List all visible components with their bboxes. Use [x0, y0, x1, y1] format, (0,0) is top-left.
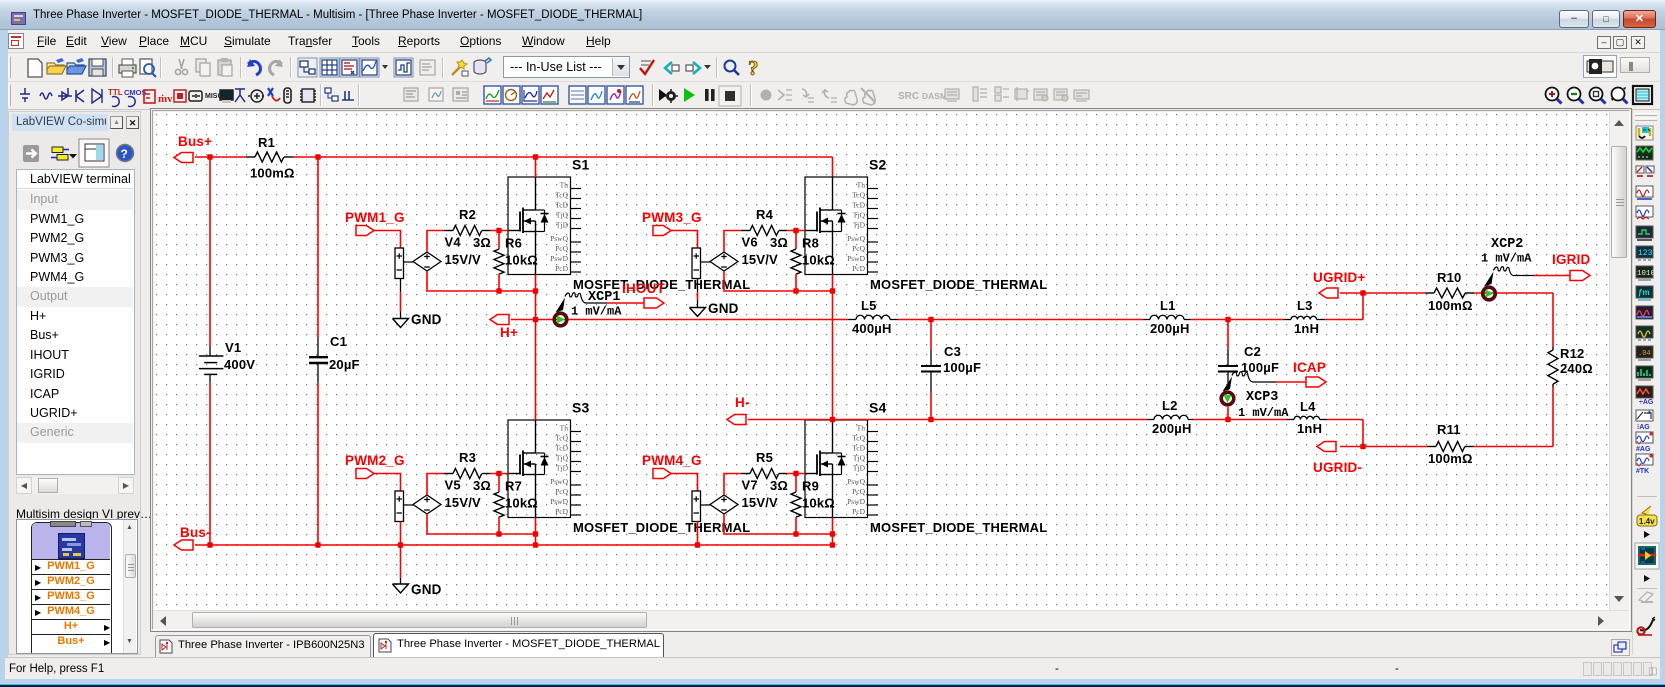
junction return at source — [830, 531, 835, 536]
svg-text:10kΩ: 10kΩ — [802, 496, 835, 511]
svg-text:R1: R1 — [258, 135, 275, 150]
1.4v probe icon — [1637, 506, 1657, 526]
svg-text:240Ω: 240Ω — [1560, 361, 1593, 376]
svg-text:S1: S1 — [572, 157, 590, 173]
junction — [533, 317, 538, 322]
probe tool — [1637, 617, 1655, 635]
sep — [290, 57, 291, 78]
svg-text:L1: L1 — [1160, 298, 1176, 313]
svg-text:SRC: SRC — [898, 91, 919, 102]
print — [119, 59, 136, 77]
junction — [695, 542, 700, 547]
dependent source V4 (VCVS 15V/V) — [395, 235, 481, 279]
wire PWM to VCVS input — [374, 474, 401, 492]
subcircuit S1 box — [508, 157, 750, 293]
svg-text:200µH: 200µH — [1150, 321, 1190, 336]
junction gate node — [496, 228, 501, 233]
right simulation switch buttons — [1583, 55, 1617, 78]
svg-text:Th: Th — [560, 423, 569, 432]
svg-text:100µF: 100µF — [943, 360, 981, 375]
back — [665, 62, 679, 74]
sep — [240, 57, 241, 78]
resistor R3 3 ohm gate resistor — [444, 450, 491, 493]
svg-text:1nH: 1nH — [1294, 321, 1319, 336]
wire S1 source to H+ node — [535, 275, 537, 320]
left dock panel: LabVIEW Co-simulation — [8, 111, 141, 655]
svg-text:TjQ: TjQ — [853, 210, 866, 219]
wire source return — [796, 290, 833, 292]
junction — [315, 154, 320, 159]
wire VCVS return — [427, 271, 499, 291]
svg-text:TjD: TjD — [556, 220, 569, 229]
wire Bus+ rail — [195, 156, 246, 158]
wire gate node — [490, 473, 508, 475]
wire PWM to VCVS input — [671, 231, 698, 249]
ground under VCVS — [690, 279, 739, 317]
svg-text:⁝AG: ⁝AG — [1637, 424, 1650, 431]
graapher btn + dd — [360, 58, 379, 77]
svg-text:Bus-: Bus- — [180, 525, 211, 540]
resistor R9 10k gate pulldown — [791, 474, 835, 535]
svg-text:1 mV/mA: 1 mV/mA — [571, 305, 622, 319]
svg-text:ṁv: ṁv — [158, 93, 173, 105]
svg-text:L3: L3 — [1297, 298, 1313, 313]
svg-text:1nH: 1nH — [1297, 421, 1322, 436]
svg-text:TcD: TcD — [555, 443, 568, 452]
arrows — [35, 563, 41, 572]
svg-text:L2: L2 — [1162, 398, 1178, 413]
capacitor C3 100uF — [921, 320, 981, 420]
svg-text:MOSFET_DIODE_THERMAL: MOSFET_DIODE_THERMAL — [870, 520, 1047, 535]
svg-text:10kΩ: 10kΩ — [505, 253, 538, 268]
svg-text:15V/V: 15V/V — [445, 495, 482, 510]
wire S2 source to H- node — [832, 275, 834, 420]
save — [89, 59, 106, 76]
svg-text:GND: GND — [411, 312, 442, 327]
svg-text:PcQ: PcQ — [555, 487, 569, 496]
svg-text:PWM4_G: PWM4_G — [642, 453, 702, 468]
node UGRID+ connector — [1313, 270, 1366, 298]
sep — [442, 57, 443, 78]
svg-text:H+: H+ — [500, 325, 518, 340]
svg-text:TjQ: TjQ — [556, 453, 569, 462]
wire S3 source to Bus- — [535, 518, 537, 546]
svg-text:R9: R9 — [802, 479, 819, 494]
svg-text:R11: R11 — [1437, 422, 1461, 437]
wire VCVS input to Bus- rail (leg4) — [697, 522, 699, 546]
junction — [1225, 417, 1230, 422]
node PWM4_G input connector — [642, 453, 702, 479]
wire H+ rail — [511, 319, 848, 321]
svg-text:GND: GND — [708, 301, 739, 316]
junction — [830, 417, 835, 422]
analyses btn — [394, 58, 413, 77]
VI icon — [58, 533, 85, 559]
resistor R12 240 ohm — [1548, 346, 1593, 447]
svg-text:PswD: PswD — [550, 254, 569, 263]
svg-text:1010: 1010 — [1637, 270, 1656, 278]
svg-text:TcQ: TcQ — [555, 190, 568, 199]
terminal list — [16, 169, 135, 475]
junction — [830, 542, 835, 547]
spreadsheet btn — [320, 58, 339, 77]
pin stubs and labels of S3 — [550, 423, 581, 516]
wire VCVS input to Bus- rail (leg3) — [400, 522, 402, 546]
node UGRID- connector — [1313, 442, 1362, 476]
wire S4 drain from H- — [832, 419, 834, 422]
svg-text:R10: R10 — [1437, 270, 1461, 285]
junction return at source — [533, 288, 538, 293]
greyed debug icons — [761, 88, 876, 105]
svg-text:PcD: PcD — [555, 264, 569, 273]
svg-text:R2: R2 — [459, 207, 476, 222]
svg-text:TcQ: TcQ — [852, 433, 865, 442]
svg-text:R7: R7 — [505, 479, 522, 494]
wire source return — [499, 290, 536, 292]
current probe XCP3 — [1221, 372, 1306, 420]
preview box — [16, 519, 138, 654]
svg-text:PswD: PswD — [847, 254, 866, 263]
svg-text:C1: C1 — [330, 334, 347, 349]
vertical scrollbar — [1609, 112, 1629, 610]
svg-text:V1: V1 — [225, 340, 241, 355]
wire VCVS output to gate resistor — [427, 474, 444, 496]
wire S4 source to Bus- — [832, 518, 834, 546]
resistor R1 100m ohm — [246, 135, 295, 181]
instrument icons — [1636, 126, 1656, 475]
svg-text:C2: C2 — [1244, 344, 1261, 359]
svg-text:Th: Th — [857, 180, 866, 189]
wire H+ node to S3 drain — [535, 320, 537, 421]
node Bus- connector — [174, 525, 211, 550]
svg-text:15V/V: 15V/V — [742, 495, 779, 510]
horizontal scrollbar of list — [16, 477, 135, 494]
panel toolbar — [9, 136, 142, 170]
svg-text:PswQ: PswQ — [550, 234, 569, 243]
svg-text:IHOUT: IHOUT — [622, 281, 666, 296]
svg-text:R6: R6 — [505, 236, 522, 251]
svg-text:PcQ: PcQ — [852, 487, 866, 496]
inductor L1 200uH — [1143, 298, 1191, 336]
stamp greyed — [1639, 592, 1653, 602]
svg-text:R3: R3 — [459, 450, 476, 465]
wire gate node — [787, 473, 805, 475]
node PWM2_G input connector — [345, 453, 405, 479]
node IHOUT connector — [622, 281, 666, 308]
svg-text:100mΩ: 100mΩ — [1428, 298, 1473, 313]
dependent source V7 (VCVS 15V/V) — [692, 478, 778, 522]
inductor L4 1nH — [1287, 399, 1327, 436]
pin stubs and labels of S2 — [847, 180, 878, 272]
svg-text:ICAP: ICAP — [1293, 360, 1326, 375]
undo — [247, 59, 261, 75]
new — [28, 59, 42, 77]
preview scrollbar — [123, 520, 136, 655]
graph icons group 2 — [569, 86, 586, 104]
svg-text:PWM3_G: PWM3_G — [642, 210, 702, 225]
ground under VCVS — [393, 279, 442, 328]
junction return at pulldown — [793, 288, 798, 293]
resistor R10 100m ohm — [1425, 270, 1474, 313]
node Bus+ connector — [174, 134, 212, 163]
cut copy paste greyed — [175, 59, 187, 75]
wire VCVS output to gate resistor — [724, 474, 741, 496]
svg-text:#TK: #TK — [1636, 468, 1649, 475]
svg-text:ƒm: ƒm — [1638, 288, 1650, 297]
node ICAP connector — [1293, 360, 1326, 387]
junction — [207, 542, 212, 547]
svg-text:V7: V7 — [742, 478, 758, 493]
in-use list combo — [503, 56, 630, 78]
svg-text:PWM2_G: PWM2_G — [345, 453, 405, 468]
fwd — [686, 62, 700, 74]
svg-text:PcQ: PcQ — [852, 244, 866, 253]
svg-text:3Ω: 3Ω — [770, 478, 788, 493]
mcu — [300, 89, 316, 102]
redo greyed — [270, 59, 284, 75]
node H- connector — [727, 395, 750, 425]
svg-text:MOSFET_DIODE_THERMAL: MOSFET_DIODE_THERMAL — [870, 277, 1047, 292]
wire H- rail — [748, 419, 1147, 421]
wire UGRID+ line — [1340, 292, 1425, 294]
transistor (power MOSFET w/ body diode) inside S1 — [508, 177, 549, 275]
svg-text:1 mV/mA: 1 mV/mA — [1481, 252, 1532, 266]
resistor R7 10k gate pulldown — [494, 474, 538, 535]
labview icon pressed — [1635, 543, 1659, 569]
svg-text:PWM1_G: PWM1_G — [345, 210, 405, 225]
wizard — [452, 60, 468, 76]
node PWM1_G input connector — [345, 210, 405, 236]
postprocessor — [420, 60, 435, 75]
junction — [315, 542, 320, 547]
subcircuit S3 box — [508, 400, 750, 536]
junction gate node — [793, 471, 798, 476]
svg-text:V4: V4 — [445, 235, 462, 250]
svg-text:20µF: 20µF — [329, 357, 360, 372]
inductor L5 400uH — [848, 298, 898, 336]
wire Bus- rail — [195, 544, 833, 546]
preview — [140, 59, 156, 77]
svg-text:100mΩ: 100mΩ — [250, 166, 295, 181]
svg-text:15V/V: 15V/V — [742, 252, 779, 267]
wire source return — [499, 533, 536, 535]
schematic child window — [150, 108, 1632, 632]
svg-text:V6: V6 — [742, 235, 758, 250]
junction — [1360, 290, 1365, 295]
wire VCVS return — [724, 271, 796, 291]
junction — [398, 542, 403, 547]
inductor L3 1nH — [1284, 298, 1325, 336]
svg-text:Th: Th — [560, 180, 569, 189]
inductor L2 200uH — [1147, 398, 1193, 436]
resistor R8 10k gate pulldown — [791, 231, 835, 292]
junction — [533, 154, 538, 159]
node IGRID connector — [1552, 252, 1591, 281]
junction — [928, 317, 933, 322]
VI block — [31, 522, 112, 662]
svg-text:L4: L4 — [1300, 399, 1316, 414]
ground at Bus- rail — [393, 545, 442, 597]
svg-text:TjD: TjD — [853, 463, 866, 472]
component group icons — [20, 88, 30, 102]
wire S1 drain from Bus+ — [535, 157, 537, 177]
wire VCVS output to gate resistor — [427, 231, 444, 253]
dependent source V5 (VCVS 15V/V) — [395, 478, 481, 522]
svg-text:UGRID-: UGRID- — [1313, 460, 1362, 475]
svg-text:?: ? — [121, 147, 128, 161]
svg-text:L5: L5 — [861, 298, 877, 313]
svg-text:CMOS: CMOS — [124, 88, 147, 97]
junction — [533, 542, 538, 547]
SPICE netlist btn — [340, 58, 359, 77]
find — [725, 61, 740, 76]
svg-text:IGRID: IGRID — [1552, 252, 1591, 267]
svg-text:PcQ: PcQ — [555, 244, 569, 253]
svg-text:TjQ: TjQ — [853, 453, 866, 462]
svg-text:TcQ: TcQ — [852, 190, 865, 199]
junction — [1360, 444, 1365, 449]
pin stubs and labels of S4 — [847, 423, 878, 516]
svg-text:PswQ: PswQ — [847, 477, 866, 486]
svg-text:?: ? — [748, 56, 759, 80]
svg-text:Th: Th — [857, 423, 866, 432]
svg-text:10kΩ: 10kΩ — [802, 253, 835, 268]
resistor R2 3 ohm gate resistor — [444, 207, 491, 250]
resistor R4 3 ohm gate resistor — [741, 207, 788, 250]
open — [47, 58, 66, 74]
wire source return — [796, 533, 833, 535]
svg-text:C3: C3 — [944, 344, 961, 359]
current probe XCP2 — [1481, 237, 1570, 300]
svg-text:TTL: TTL — [108, 88, 123, 97]
svg-text:Bus+: Bus+ — [178, 134, 212, 149]
junction return at source — [830, 288, 835, 293]
run controls — [659, 89, 678, 103]
svg-text:PcD: PcD — [852, 264, 866, 273]
svg-text:UGRID+: UGRID+ — [1313, 270, 1366, 285]
pin stubs and labels of S1 — [550, 180, 581, 272]
junction return at pulldown — [793, 531, 798, 536]
svg-text:GND: GND — [411, 582, 442, 597]
svg-text:TcD: TcD — [555, 200, 568, 209]
svg-text:1.4v: 1.4v — [1639, 517, 1655, 526]
svg-text:.04: .04 — [1638, 350, 1651, 358]
sep — [160, 57, 161, 78]
sheet tab bar — [150, 632, 1632, 657]
svg-text:10kΩ: 10kΩ — [505, 496, 538, 511]
sep — [112, 57, 113, 78]
svg-text:H-: H- — [735, 395, 750, 410]
junction gate node — [496, 471, 501, 476]
dependent source V6 (VCVS 15V/V) — [692, 235, 778, 279]
svg-text:TjD: TjD — [556, 463, 569, 472]
svg-text:3Ω: 3Ω — [770, 235, 788, 250]
design toolbox btn — [298, 58, 317, 77]
svg-text:TjQ: TjQ — [556, 210, 569, 219]
ERC — [640, 60, 654, 74]
svg-text:TcD: TcD — [852, 200, 865, 209]
open sample — [67, 58, 86, 74]
graph icons group 1 — [484, 86, 501, 104]
junction — [207, 154, 212, 159]
transistor (power MOSFET w/ body diode) inside S2 — [805, 177, 846, 275]
node H+ connector — [490, 315, 518, 341]
svg-text:100mΩ: 100mΩ — [1428, 451, 1473, 466]
svg-text:DASM: DASM — [922, 91, 947, 101]
svg-text:R5: R5 — [756, 450, 773, 465]
svg-text:XCP3: XCP3 — [1246, 390, 1278, 405]
right instruments toolbar — [1632, 110, 1660, 655]
wire PWM to VCVS input — [671, 474, 698, 492]
svg-text:PswQ: PswQ — [847, 234, 866, 243]
wire VCVS return — [427, 514, 499, 534]
svg-text:S4: S4 — [869, 400, 887, 416]
zoom icons right — [1540, 84, 1665, 108]
svg-text:400V: 400V — [224, 357, 255, 372]
rows — [32, 559, 110, 663]
svg-text:PswD: PswD — [550, 497, 569, 506]
help — [748, 56, 759, 80]
svg-text:V5: V5 — [445, 478, 461, 493]
wire gate node — [787, 230, 805, 232]
wire gate node — [490, 230, 508, 232]
transistor (power MOSFET w/ body diode) inside S4 — [805, 420, 846, 518]
junction gate node — [793, 228, 798, 233]
svg-text:PswQ: PswQ — [550, 477, 569, 486]
svg-text:R4: R4 — [756, 207, 774, 222]
wire UGRID- line — [1474, 446, 1553, 448]
node PWM3_G input connector — [642, 210, 702, 236]
battery V1 400V — [199, 157, 255, 545]
resistor R6 10k gate pulldown — [494, 231, 538, 292]
junction return at source — [533, 531, 538, 536]
svg-text:15V/V: 15V/V — [445, 252, 482, 267]
svg-text:123: 123 — [1638, 249, 1653, 258]
svg-text:TcD: TcD — [852, 443, 865, 452]
svg-text:1 mV/mA: 1 mV/mA — [1238, 406, 1289, 420]
svg-text:#AG: #AG — [1636, 446, 1651, 453]
subcircuit S2 box — [805, 157, 1047, 293]
svg-text:3Ω: 3Ω — [473, 478, 491, 493]
svg-text:XCP1: XCP1 — [588, 290, 620, 305]
preview label — [16, 507, 152, 521]
junction return at pulldown — [496, 531, 501, 536]
svg-text:S2: S2 — [869, 157, 887, 173]
svg-text:PswD: PswD — [847, 497, 866, 506]
svg-text:R12: R12 — [1560, 346, 1584, 361]
cascade button right — [1611, 639, 1630, 656]
junction return at pulldown — [496, 288, 501, 293]
svg-text:TjD: TjD — [853, 220, 866, 229]
transistor (power MOSFET w/ body diode) inside S3 — [508, 420, 549, 518]
wire PWM to VCVS input — [374, 231, 401, 249]
resistor R5 3 ohm gate resistor — [741, 450, 788, 493]
capacitor C1 20uF — [309, 157, 360, 545]
svg-text:TcQ: TcQ — [555, 433, 568, 442]
svg-text:3Ω: 3Ω — [473, 235, 491, 250]
svg-text:PcD: PcD — [852, 507, 866, 516]
white canvas + circuit — [154, 112, 1609, 610]
svg-text:XCP2: XCP2 — [1491, 237, 1523, 252]
svg-text:PcD: PcD — [555, 507, 569, 516]
svg-text:R8: R8 — [802, 236, 819, 251]
toolbar row 1 — [0, 53, 1665, 82]
svg-text:400µH: 400µH — [852, 321, 892, 336]
toolbar row 2 — [0, 82, 1665, 110]
horizontal scrollbar — [154, 610, 1629, 629]
svg-text:S3: S3 — [572, 400, 590, 416]
wire VCVS return — [724, 514, 796, 534]
